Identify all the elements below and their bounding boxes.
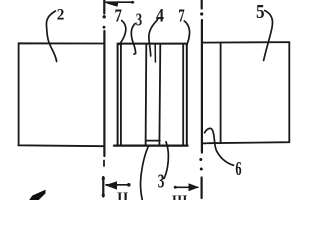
middle box plate line a — [145, 45, 148, 145]
svg-text:3: 3 — [136, 10, 143, 30]
section line III dot c — [200, 168, 203, 171]
section line III bottom solid segment — [201, 178, 203, 199]
long curve below middle box — [141, 146, 149, 200]
section line II dot a — [103, 15, 106, 18]
middle box inner right wall — [182, 45, 184, 145]
svg-text:4: 4 — [156, 7, 164, 27]
section line III dot b — [199, 158, 202, 161]
middle box bottom edge — [114, 145, 188, 147]
svg-text:2: 2 — [57, 7, 65, 24]
leader line for right label 7 — [184, 21, 189, 46]
middle box inner left wall — [120, 45, 122, 146]
section line III dot a — [200, 12, 203, 15]
leader line for label 2 — [46, 11, 56, 62]
middle box short stub line — [154, 45, 156, 63]
left box 2 — [18, 43, 104, 146]
leader line for label 5 — [264, 11, 273, 61]
section arrow III — [175, 186, 198, 188]
section line III top dash — [201, 0, 203, 9]
leader line for label 4 — [149, 20, 158, 57]
section line II bottom solid segment — [102, 177, 104, 197]
right box inner divider — [220, 43, 222, 143]
svg-text:6: 6 — [235, 159, 241, 180]
svg-text:7: 7 — [178, 6, 184, 26]
middle box bottom notch — [146, 140, 160, 142]
svg-text:7: 7 — [115, 6, 122, 26]
section line II main solid segment — [103, 31, 105, 156]
svg-text:5: 5 — [256, 1, 265, 23]
middle box outline — [118, 44, 187, 145]
right box 5 — [202, 42, 289, 143]
section line II vertical — [103, 0, 105, 14]
section line III main solid segment — [201, 20, 203, 153]
section arrow II — [106, 184, 129, 186]
top section arrow at line II — [106, 1, 134, 3]
black direction arrow bottom-left — [30, 190, 45, 200]
leader line for left label 7 — [120, 21, 126, 45]
section line II dash below — [103, 161, 105, 167]
svg-text:II: II — [117, 191, 129, 201]
section line II bottom end dots — [102, 177, 105, 180]
leader line for label 6 — [205, 128, 234, 165]
svg-text:III: III — [172, 193, 188, 200]
leader line for top label 3 — [131, 24, 135, 55]
section line II dot b — [103, 26, 106, 29]
leader line for bottom label 3 — [164, 142, 168, 179]
middle box plate line b — [158, 45, 161, 145]
svg-text:3: 3 — [158, 170, 165, 192]
